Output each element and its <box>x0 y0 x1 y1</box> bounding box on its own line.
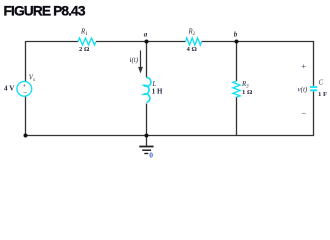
wire left top (corner to source circle) <box>25 41 27 81</box>
svg-text:0: 0 <box>149 151 153 160</box>
voltage source Vs <box>17 81 32 96</box>
svg-text:4 V: 4 V <box>4 85 15 93</box>
resistor R3 <box>233 81 240 97</box>
wire R3 branch top (node b to R3) <box>236 42 238 82</box>
svg-text:a: a <box>144 30 148 38</box>
svg-text:1 H: 1 H <box>152 88 163 96</box>
wire right top (corner to capacitor) <box>313 42 315 86</box>
wire R3 branch bottom (R3 to bottom rail) <box>236 97 238 136</box>
node a <box>145 40 149 44</box>
svg-text:−: − <box>23 88 27 97</box>
wire middle branch bottom (inductor to ground node) <box>146 104 148 136</box>
svg-text:C: C <box>319 79 324 86</box>
ground <box>139 146 153 148</box>
svg-text:i(t): i(t) <box>130 56 139 64</box>
wire middle branch top (node a to inductor) <box>146 42 148 78</box>
node b <box>235 40 239 44</box>
junction dot ground node <box>145 134 149 138</box>
svg-text:4 Ω: 4 Ω <box>187 46 198 53</box>
svg-text:−: − <box>301 108 306 118</box>
svg-text:1 F: 1 F <box>318 91 327 98</box>
svg-text:FIGURE P8.43: FIGURE P8.43 <box>4 3 86 18</box>
svg-text:v(t): v(t) <box>298 85 308 93</box>
svg-text:b: b <box>234 30 238 38</box>
junction dot bottom-left <box>24 134 28 138</box>
wire right bottom (capacitor to corner) <box>313 91 315 135</box>
svg-text:2 Ω: 2 Ω <box>79 46 90 53</box>
capacitor C <box>310 86 317 88</box>
wire bottom rail <box>26 135 315 137</box>
resistor R1 <box>78 38 96 45</box>
wire ground stub <box>146 136 148 146</box>
svg-text:1 Ω: 1 Ω <box>242 89 253 96</box>
wire node a to R2 already covered; wire R2 to top-right <box>202 41 315 43</box>
current arrow i(t) <box>140 51 142 68</box>
inductor L <box>144 78 151 103</box>
svg-text:+: + <box>301 61 306 71</box>
wire R1 to node a <box>96 41 186 43</box>
wire top-left to R1 <box>26 41 79 43</box>
resistor R2 <box>186 38 202 45</box>
wire left bottom (source circle to corner) <box>25 96 27 135</box>
